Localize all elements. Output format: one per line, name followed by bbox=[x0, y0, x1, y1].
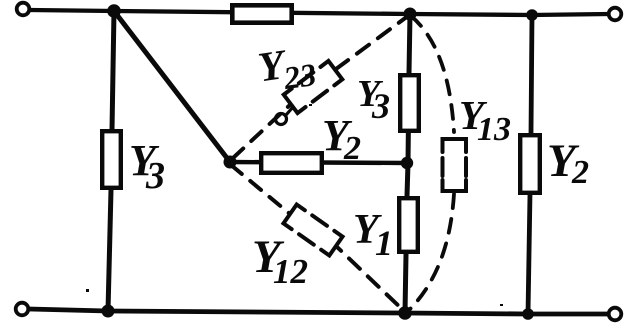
terminal (bottom right) bbox=[609, 308, 622, 321]
wire: right vertical branch bbox=[528, 15, 532, 314]
terminal (bottom left) bbox=[16, 303, 29, 316]
admittance Y13 dashed arc upper bbox=[411, 16, 454, 132]
svg-text:2: 2 bbox=[571, 154, 589, 191]
node A (center) bbox=[224, 156, 237, 169]
admittance Y12 dashed body bbox=[283, 205, 342, 256]
svg-text:3: 3 bbox=[371, 86, 390, 126]
label Y3 (mid column) bbox=[357, 73, 390, 126]
admittance Y2 body (right branch) bbox=[520, 135, 540, 193]
junction J4 (bottom left) bbox=[102, 305, 115, 318]
svg-text:3: 3 bbox=[145, 155, 165, 197]
label Y3 (left branch) bbox=[129, 136, 165, 197]
wire: left vertical branch bbox=[108, 11, 114, 311]
admittance Y13 dashed body bbox=[443, 139, 467, 191]
terminal (top right) bbox=[609, 8, 622, 21]
scan speck 1 bbox=[86, 289, 89, 292]
junction J6 (bottom right) bbox=[522, 308, 534, 320]
scan speck 2 bbox=[500, 304, 503, 306]
label Y12 bbox=[252, 231, 308, 291]
junction J3 (top right) bbox=[526, 9, 538, 21]
wire: mid column lower (mid node down to bottom junction) bbox=[405, 163, 408, 313]
admittance Y13 dashed arc lower bbox=[407, 194, 454, 312]
junction J5 (bottom mid) bbox=[398, 306, 412, 320]
label Y2 (right branch) bbox=[547, 135, 589, 191]
junction J1 (top left) bbox=[107, 4, 121, 18]
admittance Y12 dashed diagonal wire bbox=[231, 165, 290, 214]
admittance Y3 body (left branch) bbox=[102, 131, 121, 188]
svg-text:2: 2 bbox=[343, 130, 361, 167]
label Y2 (horizontal) bbox=[322, 111, 361, 167]
admittance Y1 body (mid column lower) bbox=[399, 198, 418, 252]
wire: bottom bus from left terminal to right terminal bbox=[29, 309, 609, 314]
scan speck 3 bbox=[309, 104, 312, 106]
admittance Y23 dashed body bbox=[284, 61, 343, 113]
svg-text:13: 13 bbox=[477, 111, 511, 148]
svg-text:23: 23 bbox=[281, 56, 319, 96]
svg-text:12: 12 bbox=[273, 252, 308, 291]
wire: horizontal from center node to mid node bbox=[230, 162, 406, 163]
wire: diagonal from top-left junction to center node bbox=[114, 11, 230, 162]
admittance Y23 dashed diagonal wire bbox=[233, 104, 291, 158]
label Y23 bbox=[255, 38, 318, 99]
scan artifact loop (small 6-shaped mark) bbox=[276, 114, 287, 125]
label Y13 bbox=[459, 92, 511, 148]
resistor (unlabeled, top bus) bbox=[232, 5, 291, 22]
admittance Y3 body (mid column upper) bbox=[400, 75, 419, 131]
terminal (top left) bbox=[17, 3, 30, 16]
junction J2 (top mid-right) bbox=[404, 8, 417, 21]
label Y1 (mid column) bbox=[353, 207, 393, 263]
wire: top bus from left terminal to right terminal bbox=[30, 10, 609, 15]
wire: mid column upper (top junction down to mid node) bbox=[408, 14, 410, 163]
svg-text:1: 1 bbox=[375, 223, 393, 263]
admittance Y2 body (horizontal) bbox=[261, 153, 322, 173]
node B (mid right) bbox=[401, 157, 413, 169]
